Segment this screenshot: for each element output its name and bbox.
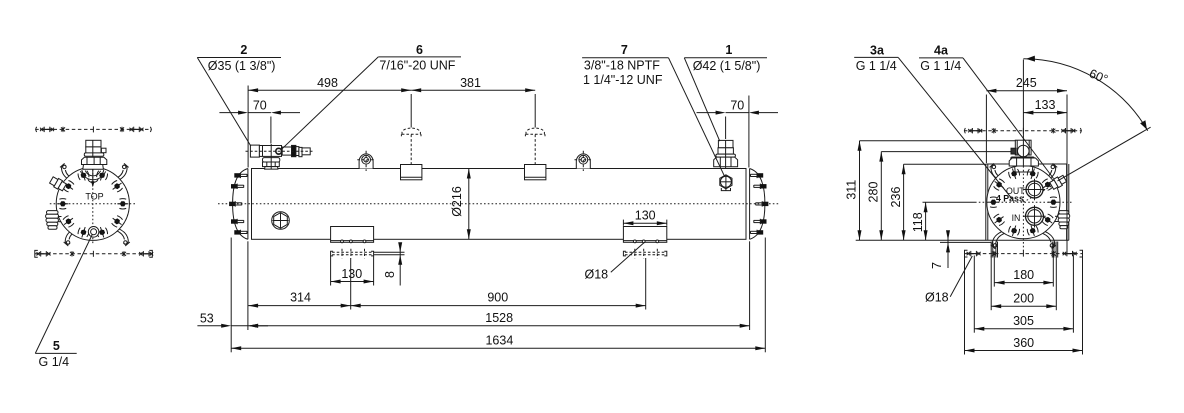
right view IN port <box>1026 207 1044 225</box>
right view flange bolts <box>1026 167 1039 181</box>
right view OUT port <box>1026 181 1043 198</box>
shell hex plug <box>272 212 290 230</box>
right view strap hooks <box>990 163 1004 181</box>
svg-text:360: 360 <box>1013 336 1034 350</box>
svg-text:3a: 3a <box>870 43 885 57</box>
right view angled plug 4a <box>1049 174 1067 190</box>
saddle foot x=330.6 <box>331 227 374 243</box>
ext lines 245/133 <box>985 95 987 164</box>
dimension 381 <box>411 89 535 91</box>
svg-text:381: 381 <box>460 76 481 90</box>
svg-text:G 1/4: G 1/4 <box>39 355 70 369</box>
svg-text:8: 8 <box>383 271 397 278</box>
svg-text:3/8"-18 NPTF: 3/8"-18 NPTF <box>584 59 660 73</box>
svg-text:53: 53 <box>200 312 214 326</box>
dimension 70 left <box>219 112 240 114</box>
right view flange circle <box>987 166 1060 239</box>
dimension 360 <box>965 350 1083 352</box>
dimension 1528 <box>247 241 249 330</box>
valve item1 stack <box>718 140 733 147</box>
svg-text:1634: 1634 <box>485 334 513 348</box>
left view strap hooks <box>60 163 74 181</box>
dimension 305 <box>974 328 1073 330</box>
svg-text:7: 7 <box>930 262 944 269</box>
svg-text:70: 70 <box>730 98 744 112</box>
svg-text:Ø35 (1 3/8"): Ø35 (1 3/8") <box>208 59 276 73</box>
left view head dome <box>81 171 106 180</box>
right view center lines <box>975 201 1072 203</box>
lifting lug at x=366.1 <box>359 154 373 169</box>
dimension 60 deg <box>1022 60 1024 140</box>
left view top valve <box>86 140 101 147</box>
dashed valve position at x=411.2 <box>402 128 420 134</box>
foot base plate hidden x=330.6 <box>332 251 372 253</box>
dimension 118 <box>925 202 927 240</box>
valve item2 axis <box>246 150 313 152</box>
right view ref lines <box>860 140 1016 142</box>
dimension 314-900 <box>350 258 352 310</box>
shell body <box>252 169 747 240</box>
dashed valve position at x=535.2 <box>526 128 544 134</box>
svg-text:IN: IN <box>1012 213 1021 223</box>
valve item2 body <box>250 145 259 157</box>
dimension 130 right <box>622 220 624 226</box>
svg-text:130: 130 <box>635 208 656 222</box>
right view top valve <box>1015 140 1031 155</box>
lifting lug at x=583.3 <box>576 154 590 169</box>
right view side knob <box>1059 211 1069 214</box>
svg-text:2: 2 <box>240 43 247 57</box>
callout 5 G 1/4 <box>35 234 92 353</box>
dimension 53 <box>197 325 222 327</box>
svg-text:Ø18: Ø18 <box>585 267 609 281</box>
dimension D216 <box>468 169 470 240</box>
svg-text:70: 70 <box>253 98 267 112</box>
valve item2 nut stack <box>263 158 280 162</box>
saddle foot x=623.4 <box>623 227 666 243</box>
svg-text:1528: 1528 <box>485 311 513 325</box>
left tube sheet flange <box>247 169 249 240</box>
svg-text:60°: 60° <box>1087 66 1110 86</box>
svg-text:Ø42 (1 5/8"): Ø42 (1 5/8") <box>693 59 761 73</box>
left view angled plug G1/4 <box>49 176 67 192</box>
svg-text:311: 311 <box>845 180 859 200</box>
dimension 200 <box>991 305 1056 307</box>
svg-text:7: 7 <box>621 43 628 57</box>
right tube sheet flange <box>745 169 747 240</box>
ext lines top dims <box>247 86 249 168</box>
svg-text:133: 133 <box>1035 98 1056 112</box>
svg-text:4 Pass: 4 Pass <box>996 194 1024 204</box>
left view side knob <box>47 211 59 215</box>
foot base plate hidden x=623.4 <box>625 251 665 253</box>
svg-text:130: 130 <box>341 267 362 281</box>
dimension 236 <box>903 164 905 240</box>
svg-text:1: 1 <box>725 43 732 57</box>
left view center lines <box>50 203 137 205</box>
right view foot offset lines <box>940 241 992 243</box>
socket at x=411.2 <box>401 165 422 180</box>
left bonnet bolts <box>234 173 247 178</box>
svg-text:4a: 4a <box>934 43 949 57</box>
svg-text:G 1 1/4: G 1 1/4 <box>856 59 897 73</box>
svg-text:7/16"-20 UNF: 7/16"-20 UNF <box>379 59 455 73</box>
svg-text:314: 314 <box>290 291 311 305</box>
svg-text:200: 200 <box>1013 291 1034 305</box>
dimension 70 right <box>697 112 718 114</box>
right view phantom base plate bottom line <box>965 253 1083 255</box>
svg-text:5: 5 <box>53 339 60 353</box>
svg-text:180: 180 <box>1013 268 1034 282</box>
svg-text:TOP: TOP <box>85 191 103 201</box>
dimension 130 left <box>330 256 332 286</box>
svg-text:118: 118 <box>911 212 925 232</box>
svg-text:305: 305 <box>1013 314 1034 328</box>
socket at x=535.2 <box>525 165 546 180</box>
svg-text:280: 280 <box>867 182 881 203</box>
svg-text:Ø18: Ø18 <box>925 291 949 305</box>
dimension 180 <box>995 282 1054 284</box>
svg-text:498: 498 <box>317 76 338 90</box>
svg-text:1 1/4"-12 UNF: 1 1/4"-12 UNF <box>583 73 663 87</box>
svg-text:245: 245 <box>1016 76 1037 90</box>
right view tube sheet plate <box>985 164 987 240</box>
svg-text:Ø216: Ø216 <box>450 186 464 217</box>
left view bottom plug <box>88 227 99 238</box>
svg-text:G 1 1/4: G 1 1/4 <box>920 59 961 73</box>
dimension 133 <box>1023 112 1067 114</box>
svg-text:900: 900 <box>487 291 508 305</box>
right bonnet bolts <box>751 173 764 178</box>
plug item7 <box>720 175 732 189</box>
left view flange bolts <box>95 168 108 182</box>
dimension 8 <box>374 251 405 253</box>
left view flange circle <box>56 167 129 240</box>
right view phantom base plate top line <box>964 130 1082 132</box>
right view feet legs <box>990 242 992 258</box>
dimension 311 <box>859 141 861 241</box>
left bonnet <box>233 169 248 240</box>
dimension 1634 <box>230 238 232 353</box>
dimension 245 <box>986 90 1067 92</box>
left view phantom base plate top line <box>35 128 152 130</box>
dimension 280 <box>880 152 882 241</box>
left view phantom base plate bottom line <box>35 253 153 255</box>
dimension 7 <box>947 232 949 269</box>
right view bottom ext lines <box>964 256 966 355</box>
svg-text:236: 236 <box>889 187 903 208</box>
dimension 498 <box>248 89 411 91</box>
svg-text:6: 6 <box>416 43 423 57</box>
right bonnet <box>750 169 765 240</box>
shell center line <box>218 203 779 205</box>
